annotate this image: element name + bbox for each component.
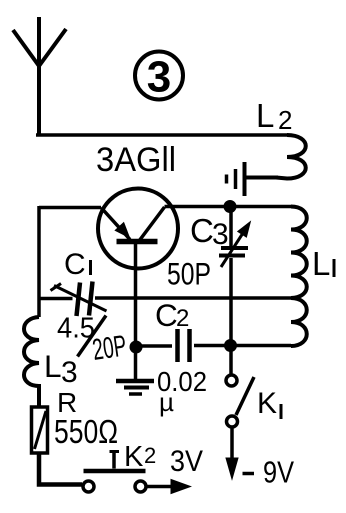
inductor L1 upper half (291, 207, 307, 299)
switch K2 (pushbutton) (83, 452, 146, 493)
svg-text:C: C (190, 212, 214, 249)
wire antenna to L2 (36, 133, 287, 137)
svg-text:9V: 9V (263, 455, 294, 490)
capacitor C3 (trimmer) (219, 210, 250, 341)
wire K2 to 3V arrow (147, 480, 191, 494)
svg-text:3: 3 (147, 53, 171, 102)
label K1 (257, 387, 281, 420)
inductor L2 (276, 135, 306, 179)
svg-text:2: 2 (176, 305, 189, 332)
svg-text:L: L (312, 245, 330, 282)
svg-text:3V: 3V (170, 445, 203, 478)
svg-text:µ: µ (159, 387, 174, 417)
label -9V (243, 455, 295, 490)
ground (emitter/base circuit) (116, 347, 154, 394)
svg-text:L: L (256, 97, 274, 134)
transistor V 3AG11 (98, 189, 178, 342)
svg-text:C: C (64, 248, 86, 281)
wire and arrow to -9V (226, 428, 238, 480)
inductor L3 (24, 317, 39, 407)
wire R to K2 (39, 453, 82, 485)
svg-text:550Ω: 550Ω (54, 413, 118, 450)
label L3 (44, 348, 78, 389)
node B (base / C2 / ground) (130, 341, 143, 354)
switch K1 (226, 351, 254, 427)
label C3 (190, 212, 229, 251)
svg-text:3: 3 (61, 356, 78, 389)
svg-text:20P: 20P (90, 330, 128, 367)
left bus wire (37, 206, 41, 317)
svg-text:K: K (124, 441, 144, 473)
svg-text:L: L (44, 348, 62, 384)
capacitor C2 (136, 329, 291, 362)
label L2 (256, 97, 292, 135)
svg-text:50P: 50P (167, 256, 211, 292)
label C1 (64, 248, 91, 281)
wire collector to node A (165, 205, 292, 209)
chassis ground for L2 (227, 162, 279, 196)
node A (collector / C3 / L1) (224, 200, 237, 213)
wire feedback tap (39, 296, 291, 300)
svg-text:K: K (257, 387, 277, 420)
svg-text:3: 3 (212, 218, 229, 251)
figure number 3 (135, 52, 183, 102)
wire emitter (39, 206, 101, 210)
svg-text:C: C (155, 297, 178, 333)
capacitor C1 (trimmer 4.5-20p) (51, 282, 107, 317)
antenna (13, 17, 66, 135)
resistor R (32, 407, 48, 453)
label C2 (155, 297, 189, 333)
label L1 (312, 245, 334, 282)
node C (C2 / L1 bottom / K1) (224, 339, 237, 352)
svg-text:2: 2 (144, 443, 156, 468)
slash (78, 316, 107, 357)
label K2 (124, 441, 156, 473)
svg-text:2: 2 (278, 105, 292, 135)
inductor L1 lower half (291, 298, 307, 346)
svg-text:3AGll: 3AGll (96, 141, 176, 179)
